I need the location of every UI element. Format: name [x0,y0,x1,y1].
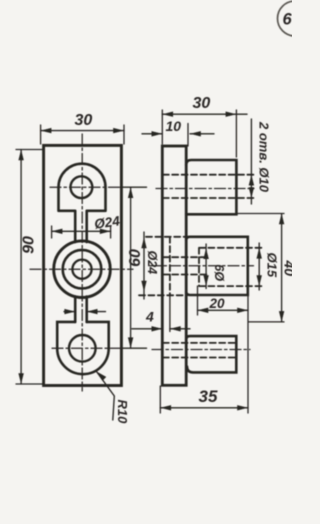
side bottom centerline [152,349,250,351]
dim D15: line and arrows [257,243,262,290]
front view outline rectangle [44,145,122,385]
svg-text:R10: R10 [115,400,130,425]
dim 10 side: extension line right [187,124,189,147]
side top hole centerline [156,188,254,190]
dim 4: line and arrows [132,326,190,331]
front view middle centerline [30,268,133,270]
dim 30 front: extension lines [41,125,124,144]
top hole hidden lines [163,175,255,198]
neck width arrows front view [64,309,106,314]
front view top hole centerline [50,186,121,188]
middle boss outer circle [54,241,111,298]
svg-text:35: 35 [199,387,218,406]
middle boss middle circle [63,250,102,289]
dim 20: line and arrows [198,308,249,313]
dim 2 otv D10: line and arrows [249,119,254,204]
D15 counterbore hidden lines [199,248,263,286]
dim 90 left: extension lines [16,150,43,385]
dim 40 right: line and arrows [279,214,284,322]
dim 10 side: lines and arrows (outside) [142,131,214,136]
dim 35: line and arrows [160,405,248,410]
dim 60 right of front view [128,187,133,348]
dim 20: extension line left [197,286,199,315]
svg-text:Ø15: Ø15 [265,253,280,278]
front view vertical centerline [81,134,83,391]
svg-text:10: 10 [166,118,182,134]
side view top cylinder [186,160,236,214]
svg-text:30: 30 [75,112,93,129]
bottom hole circle [69,335,96,362]
middle boss inner hole [72,260,91,279]
top hole circle [71,176,93,198]
dim 90 left: line and arrows [18,150,23,385]
dim 30 side: extension lines [162,110,236,157]
dim 40 right: extension lines [237,214,284,322]
dim D24 front: extension ticks [52,226,111,238]
top boss contour [59,164,106,242]
side middle centerline [150,265,254,267]
D9 hole hidden lines [163,257,209,274]
side bottom cylinder [186,336,236,372]
dim D24 front: line and arrows [52,229,111,234]
bottom neck lines [75,297,87,322]
counterbore depth extension line [169,295,171,331]
svg-text:4: 4 [145,309,154,325]
svg-text:40: 40 [282,260,293,277]
dim 20: extension line right (cylinder edge extended) [247,295,249,413]
dim 30 front: line and arrows [41,128,124,133]
R10 leader and arrow [97,372,115,421]
front view bottom hole centerline [52,347,121,349]
dim 35: extension line left [159,386,161,413]
svg-text:Ø24: Ø24 [145,251,159,275]
svg-text:30: 30 [193,95,211,112]
side middle cylinder [186,237,248,295]
dim D9: line and arrows [203,244,208,289]
bottom boss contour [57,322,108,374]
svg-text:20: 20 [209,296,226,311]
badge circle top-right [278,1,313,36]
side view plate outline [162,146,186,385]
svg-text:2 отв. Ø10: 2 отв. Ø10 [257,121,272,193]
svg-text:6: 6 [283,11,293,29]
svg-text:90: 90 [21,236,38,254]
left counterbore hidden lines D24x4 [139,237,186,295]
bottom hole hidden lines [163,343,237,358]
dim D24 side: line and arrows [141,232,146,299]
svg-text:60: 60 [127,249,144,267]
svg-text:Ø9: Ø9 [213,265,227,282]
dim 30 side: line and arrows [162,112,247,117]
